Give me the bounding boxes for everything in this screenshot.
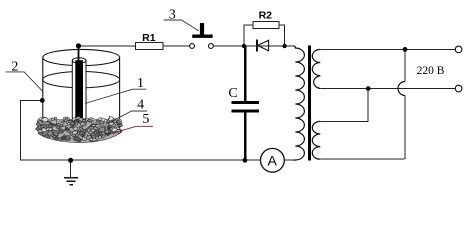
svg-text:5: 5 — [142, 112, 149, 127]
svg-text:R1: R1 — [142, 32, 156, 44]
svg-text:C: C — [228, 86, 237, 101]
svg-text:220 В: 220 В — [417, 65, 445, 77]
svg-text:R2: R2 — [259, 10, 273, 22]
svg-text:A: A — [268, 152, 278, 168]
svg-text:4: 4 — [137, 98, 144, 113]
